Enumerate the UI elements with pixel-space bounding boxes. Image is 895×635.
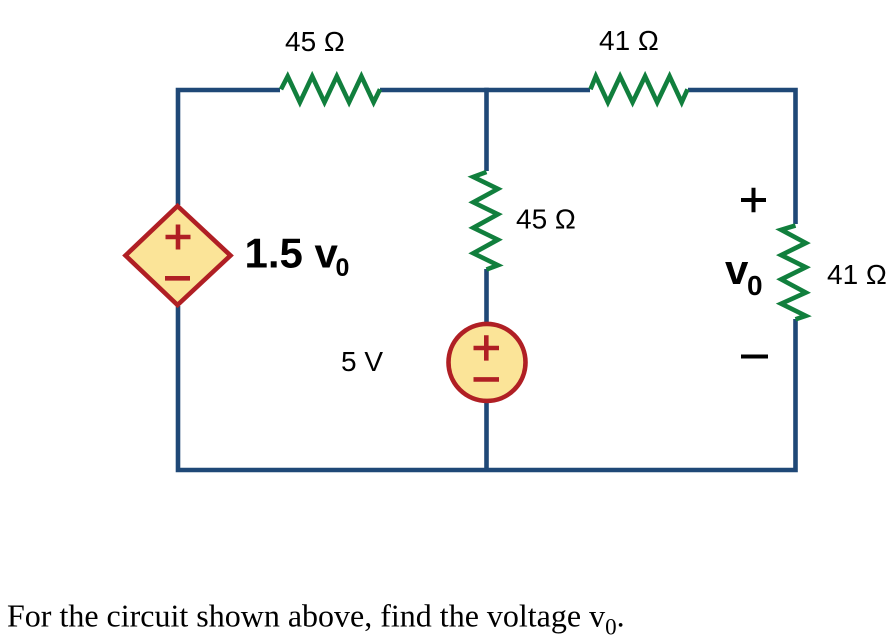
independent voltage source V1 5V circle — [449, 324, 526, 401]
5V source minus sign — [474, 377, 500, 382]
wire middle branch between resistor and 5V source — [484, 269, 489, 325]
svg-text:41 Ω: 41 Ω — [827, 259, 887, 290]
dependent source plus sign — [166, 225, 191, 250]
wire middle branch upper — [484, 88, 489, 171]
svg-text:0: 0 — [747, 270, 763, 301]
wire middle branch lower — [484, 400, 489, 470]
svg-text:v: v — [725, 246, 749, 293]
output voltage minus polarity mark — [741, 355, 768, 359]
dependent voltage source U1 diamond 1.5 v0 — [126, 206, 231, 305]
resistor R1 45 ohm top-left zigzag — [281, 76, 380, 102]
resistor R2 41 ohm top-right zigzag — [591, 76, 688, 102]
wire left branch lower — [178, 306, 487, 470]
wire bottom-right segment — [487, 319, 796, 470]
wire top-middle segment — [380, 88, 590, 93]
svg-text:0: 0 — [336, 254, 350, 282]
output voltage plus polarity mark — [741, 188, 766, 212]
svg-text:5 V: 5 V — [341, 346, 383, 377]
resistor R4 41 ohm right vertical zigzag — [781, 226, 806, 320]
svg-text:45 Ω: 45 Ω — [285, 26, 345, 57]
svg-text:45 Ω: 45 Ω — [516, 204, 576, 235]
dependent source minus sign — [165, 276, 190, 281]
svg-text:For the circuit shown above, f: For the circuit shown above, find the vo… — [7, 598, 625, 635]
svg-text:41 Ω: 41 Ω — [599, 25, 659, 56]
wire top-right segment — [688, 90, 796, 224]
wire top-left segment — [178, 90, 280, 205]
svg-text:1.5 v: 1.5 v — [245, 230, 339, 277]
5V source plus sign — [474, 335, 500, 360]
resistor R3 45 ohm middle vertical zigzag — [473, 172, 498, 270]
